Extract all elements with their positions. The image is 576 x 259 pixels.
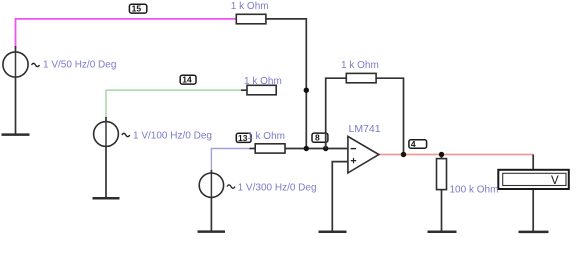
svg-text:1 k Ohm: 1 k Ohm (247, 131, 285, 142)
svg-text:1 k Ohm: 1 k Ohm (231, 1, 269, 12)
svg-text:1 V/100 Hz/0 Deg: 1 V/100 Hz/0 Deg (133, 130, 212, 141)
svg-text:4: 4 (411, 139, 416, 149)
svg-text:15: 15 (132, 4, 142, 14)
svg-text:LM741: LM741 (349, 123, 381, 135)
svg-text:14: 14 (182, 75, 192, 85)
svg-text:1 V/50 Hz/0 Deg: 1 V/50 Hz/0 Deg (43, 59, 116, 70)
svg-text:1 k Ohm: 1 k Ohm (244, 76, 282, 87)
svg-text:1 V/300 Hz/0 Deg: 1 V/300 Hz/0 Deg (238, 182, 317, 193)
svg-text:8: 8 (315, 133, 320, 143)
svg-text:1 k Ohm: 1 k Ohm (341, 60, 379, 71)
svg-text:100 k Ohm: 100 k Ohm (450, 184, 499, 195)
svg-text:V: V (551, 175, 559, 187)
